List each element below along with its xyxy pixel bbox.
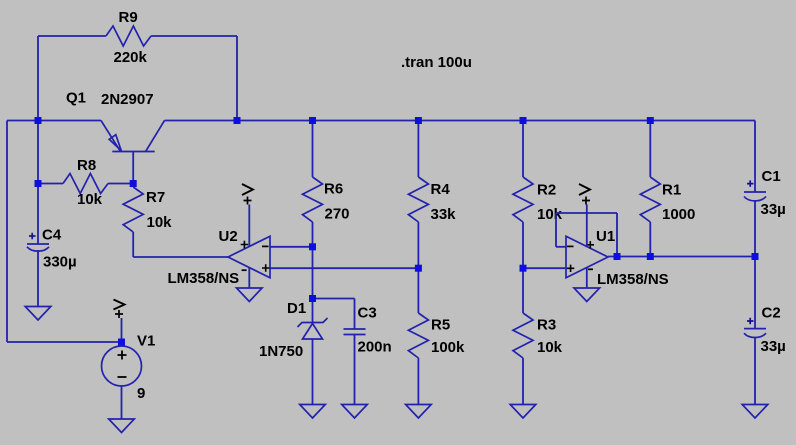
svg-text:U2: U2 <box>219 228 238 245</box>
capacitor C2 curved plate <box>744 333 766 337</box>
transistor Q1 emitter arrow <box>109 135 121 151</box>
svg-text:10k: 10k <box>537 339 563 356</box>
svg-text:200n: 200n <box>358 339 392 356</box>
junction node U1 output <box>614 253 621 260</box>
ground U1 <box>574 288 600 302</box>
wire C2 bottom <box>754 337 756 405</box>
svg-text:1000: 1000 <box>662 206 695 223</box>
svg-text:R5: R5 <box>431 317 450 334</box>
wire R1 bottom lead <box>649 222 651 257</box>
junction node rail/R2 <box>520 117 527 124</box>
resistor R6 <box>303 177 323 222</box>
junction node base/R8/R7 <box>130 180 137 187</box>
svg-text:C4: C4 <box>42 227 62 244</box>
wire R2 top lead <box>522 121 524 178</box>
wire R4 bottom lead <box>417 222 419 268</box>
U2 input minus label <box>262 245 269 247</box>
wire U1 feedback top <box>556 212 617 214</box>
wire U2 ground power <box>248 268 250 289</box>
capacitor C1 plus sign <box>747 180 754 186</box>
svg-text:Q1: Q1 <box>66 90 86 107</box>
ground C2 <box>742 405 768 419</box>
wire C3 bottom <box>354 335 356 405</box>
resistor R2 <box>513 177 533 222</box>
resistor R5 <box>408 313 428 358</box>
svg-text:C1: C1 <box>762 168 781 185</box>
svg-text:270: 270 <box>325 206 350 223</box>
junction node rail/C4 <box>35 117 42 124</box>
svg-text:U1: U1 <box>596 228 615 245</box>
wire top rail <box>165 120 756 122</box>
diode D1 zener bar <box>298 318 328 327</box>
capacitor C1 top plate <box>744 191 766 193</box>
wire D1 top lead <box>312 299 314 326</box>
junction node rail/R4 <box>415 117 422 124</box>
wire V1 bottom <box>121 386 123 419</box>
resistor R3 <box>513 313 533 358</box>
wire R3 bottom lead <box>522 358 524 405</box>
junction node R2/R3 <box>520 265 527 272</box>
capacitor C2 top plate <box>744 328 766 330</box>
svg-text:C3: C3 <box>358 305 377 322</box>
junction node rail/R6 <box>309 117 316 124</box>
junction node R8 left <box>35 180 42 187</box>
capacitor C4 top plate <box>27 243 49 245</box>
svg-text:R1: R1 <box>662 182 681 199</box>
ground R3 <box>510 405 536 419</box>
svg-text:V1: V1 <box>137 333 155 350</box>
U1 power minus label <box>588 268 593 270</box>
svg-text:LM358/NS: LM358/NS <box>597 271 669 288</box>
junction node C1/C2 <box>752 253 759 260</box>
svg-text:R2: R2 <box>537 182 556 199</box>
resistor R8 <box>38 183 63 185</box>
svg-text:R6: R6 <box>324 181 343 198</box>
svg-text:10k: 10k <box>77 191 103 208</box>
capacitor C2 plus sign <box>747 318 754 324</box>
svg-text:33µ: 33µ <box>761 201 786 218</box>
resistor R1 <box>640 177 660 222</box>
resistor R7 <box>123 187 143 232</box>
ground U2 <box>237 288 263 302</box>
transistor Q1 collector line <box>146 121 165 152</box>
svg-text:C2: C2 <box>762 305 781 322</box>
svg-text:.tran 100u: .tran 100u <box>401 54 472 71</box>
wire D1 bottom <box>312 339 314 405</box>
svg-text:R8: R8 <box>77 157 96 174</box>
net label V+ at U1 <box>579 184 590 195</box>
voltage source V1 circle <box>102 346 142 386</box>
capacitor C4 curved plate <box>27 247 49 251</box>
junction node V1 plus <box>118 339 125 346</box>
diode D1 triangle <box>303 324 323 340</box>
wire U2 inverting input <box>270 246 313 248</box>
wire R7 to U2 output <box>133 256 228 258</box>
capacitor C4 plus sign <box>29 233 36 239</box>
U2 power plus label <box>241 241 248 248</box>
svg-text:R7: R7 <box>146 189 165 206</box>
wire C3 top lead <box>354 299 356 330</box>
wire U1 feedback vertical right <box>616 213 618 257</box>
wire R5 bottom lead <box>417 358 419 405</box>
wire R1 top lead <box>649 121 651 178</box>
wire R6 bottom to D1 node <box>312 222 314 299</box>
U1 input plus label <box>567 265 574 272</box>
svg-text:2N2907: 2N2907 <box>101 91 154 108</box>
svg-text:R9: R9 <box>119 9 138 26</box>
wire C2 top lead <box>754 257 756 329</box>
net label V+ at V1 <box>114 300 125 310</box>
wire left rail to emitter <box>7 120 101 122</box>
transistor Q1 base bar <box>112 151 154 153</box>
wire U1 feedback to inverting input <box>556 246 566 248</box>
svg-text:D1: D1 <box>287 300 306 317</box>
wire left outer vertical <box>6 121 8 343</box>
wire R6 top lead <box>312 121 314 178</box>
U2 input plus label <box>262 264 269 271</box>
svg-text:R4: R4 <box>431 181 451 198</box>
resistor R4 <box>408 177 428 222</box>
wire D1 to C3 <box>313 298 355 300</box>
wire Q1 base to R8/R7 node <box>132 152 134 185</box>
wire R2 bottom lead <box>522 222 524 268</box>
wire U1 feedback vertical left <box>555 213 557 247</box>
junction node D1/C3 <box>309 295 316 302</box>
junction node R6/U2 inverting <box>309 243 316 250</box>
capacitor C1 curved plate <box>744 197 766 201</box>
wire R4 top lead <box>417 121 419 178</box>
wire R9 right lead horizontal <box>151 35 237 37</box>
junction node R4/R5 <box>415 265 422 272</box>
wire R2 node to U1 input <box>523 267 566 269</box>
wire R9 right vertical drop <box>236 36 238 121</box>
ground C3 <box>342 405 368 419</box>
U1 input minus label <box>567 245 574 247</box>
wire U1 output bus <box>608 256 755 258</box>
wire U2 V+ power <box>248 205 250 247</box>
ground D1 <box>300 405 326 419</box>
wire R9 left lead horizontal <box>38 35 106 37</box>
wire U1 V+ power <box>586 205 588 247</box>
svg-text:33k: 33k <box>431 206 457 223</box>
svg-text:220k: 220k <box>114 49 148 66</box>
V1 plus sign <box>118 351 127 360</box>
U1 power plus label <box>587 241 594 248</box>
wire bottom left horizontal to V1 <box>7 341 122 343</box>
svg-text:1N750: 1N750 <box>259 343 303 360</box>
svg-text:LM358/NS: LM358/NS <box>168 270 240 287</box>
wire C1 bottom <box>754 200 756 257</box>
wire R9 left vertical drop <box>37 36 39 121</box>
junction node rail/R9 right <box>234 117 241 124</box>
V1 minus sign <box>118 376 127 378</box>
ground V1 <box>109 419 135 433</box>
wire U2 non-inverting input <box>270 267 418 269</box>
wire C4 column vertical <box>37 121 39 245</box>
svg-text:100k: 100k <box>431 339 465 356</box>
wire U1 ground power <box>586 268 588 289</box>
wire R3 top lead <box>522 268 524 313</box>
transistor Q1 emitter line <box>101 121 121 152</box>
ground R5 <box>406 405 432 419</box>
svg-text:10k: 10k <box>147 214 173 231</box>
resistor R9 <box>106 26 151 46</box>
ground C4 <box>25 307 51 321</box>
junction node R1 bottom <box>647 253 654 260</box>
capacitor C3 top plate <box>344 328 366 330</box>
wire V1 top stub <box>121 318 123 346</box>
svg-text:33µ: 33µ <box>761 338 786 355</box>
svg-text:9: 9 <box>137 385 145 402</box>
wire C4 bottom <box>37 250 39 307</box>
op-amp U1 triangle <box>566 236 608 278</box>
svg-text:R3: R3 <box>537 317 556 334</box>
svg-text:10k: 10k <box>537 206 563 223</box>
wire R7 bottom lead <box>132 232 134 257</box>
junction node rail/R1 <box>647 117 654 124</box>
capacitor C3 bottom plate <box>344 334 366 336</box>
wire R5 top lead <box>417 268 419 313</box>
op-amp U2 triangle <box>228 236 270 278</box>
svg-text:330µ: 330µ <box>43 254 77 271</box>
net label V+ at U2 <box>242 184 253 195</box>
wire right rail drop to C1 <box>754 121 756 193</box>
U2 power minus label <box>242 269 247 271</box>
